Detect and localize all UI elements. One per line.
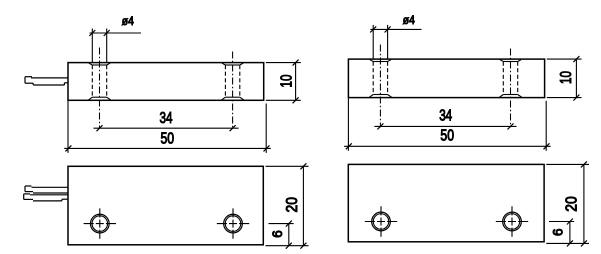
dimension 34: tick marks bbox=[97, 125, 103, 131]
hole view AH2: countersink chamfer top bbox=[222, 63, 225, 65]
mounting hole view CM2: centre mark horizontal bbox=[217, 223, 249, 225]
hole view AH2: countersink chamfer bottom bbox=[222, 97, 226, 100]
hole view BH1: countersink chamfer top bbox=[370, 60, 373, 62]
dimension 6 (hole offset): extension stub from hole centre bbox=[269, 223, 294, 225]
dimension 10 (height): extension lines bbox=[547, 58, 582, 60]
dimension 10 (height): extension lines bbox=[266, 62, 301, 64]
svg-text:20: 20 bbox=[564, 196, 581, 212]
dimension 10: tick marks bbox=[293, 60, 299, 66]
dimension o4 (hole diameter): extension lines bbox=[372, 25, 374, 59]
dimension o4: dimension line bbox=[90, 32, 142, 34]
mounting hole view DM1: outer circle bbox=[372, 212, 391, 231]
mounting hole view CM2: inner circle bbox=[225, 216, 241, 232]
mounting hole view DM2: inner circle bbox=[504, 214, 520, 230]
hole view BH2: countersink chamfer top bbox=[500, 60, 503, 62]
mounting hole view CM2: centre mark vertical bbox=[232, 208, 234, 238]
svg-text:10: 10 bbox=[558, 71, 575, 84]
dimension 20: dimension line bbox=[302, 166, 304, 245]
mounting hole view CM1: outer circle bbox=[90, 214, 109, 233]
dimension 6: tick marks bbox=[567, 219, 573, 225]
dimension 20 (width): extension lines bbox=[266, 165, 309, 167]
dimension 20: tick marks bbox=[300, 163, 306, 169]
view C: sensor body outline (top view) bbox=[68, 166, 263, 245]
svg-text:ø4: ø4 bbox=[403, 15, 416, 27]
dimension 10: tick marks bbox=[573, 56, 579, 62]
svg-text:10: 10 bbox=[278, 74, 295, 87]
mounting hole view CM1: centre mark vertical bbox=[99, 208, 101, 238]
cable pair exiting left side (top view) bbox=[25, 185, 32, 187]
dimension 34 (hole spacing): dimension line bbox=[94, 127, 239, 129]
centre line of hole view AH2 bbox=[232, 52, 234, 129]
view D: sensor body outline (top view) bbox=[348, 164, 544, 241]
svg-text:6: 6 bbox=[551, 228, 566, 236]
mounting hole view DM2: centre mark vertical bbox=[511, 206, 513, 236]
hole view AH1: countersink chamfer top bbox=[89, 63, 92, 65]
mounting hole view CM1: centre mark horizontal bbox=[84, 223, 116, 225]
svg-text:6: 6 bbox=[270, 230, 285, 238]
centre line of hole view BH2 bbox=[510, 49, 512, 128]
dimension 6 (hole offset): extension stub from hole centre bbox=[549, 221, 574, 223]
dimension 50: dimension line bbox=[344, 145, 550, 147]
hole view BH2: countersink chamfer bottom bbox=[500, 95, 504, 98]
dimension 50: tick marks bbox=[65, 145, 71, 151]
svg-text:34: 34 bbox=[160, 110, 173, 127]
mounting hole view DM1: inner circle bbox=[373, 214, 389, 230]
svg-text:50: 50 bbox=[160, 130, 174, 147]
svg-text:20: 20 bbox=[284, 197, 301, 213]
mounting hole view CM1: inner circle bbox=[92, 216, 108, 232]
svg-text:50: 50 bbox=[440, 127, 454, 144]
hole view BH2: hidden outline (dashed walls) bbox=[502, 62, 504, 95]
dimension o4: tick marks bbox=[370, 26, 376, 32]
dimension 34 (hole spacing): dimension line bbox=[374, 125, 516, 127]
hole view BH1: hidden outline (dashed walls) bbox=[372, 62, 374, 95]
wire / cable exiting left side bbox=[31, 77, 68, 79]
mounting hole view DM1: centre mark vertical bbox=[380, 206, 382, 236]
dimension 50 (overall length): extension lines bbox=[347, 98, 349, 151]
centre line of hole view BH1 bbox=[379, 45, 381, 128]
dimension 34: tick marks bbox=[377, 123, 383, 129]
svg-text:34: 34 bbox=[439, 107, 452, 124]
dimension 20 (width): extension lines bbox=[546, 163, 589, 165]
dimension 10: dimension line bbox=[575, 59, 577, 98]
dimension 50: dimension line bbox=[64, 147, 271, 149]
dimension 20: tick marks bbox=[581, 161, 587, 167]
mounting hole view DM2: centre mark horizontal bbox=[496, 221, 528, 223]
view B: sensor body outline (side view) bbox=[348, 59, 544, 98]
dimension o4 (hole diameter): extension lines bbox=[91, 29, 93, 63]
svg-text:ø4: ø4 bbox=[122, 16, 135, 28]
dimension 6: dimension line bbox=[569, 222, 571, 244]
hole view AH2: hidden outline (dashed walls) bbox=[224, 65, 226, 97]
mounting hole view DM1: centre mark horizontal bbox=[365, 221, 397, 223]
hole view AH1: countersink chamfer bottom bbox=[89, 97, 93, 100]
view A: sensor body outline (side view) bbox=[68, 63, 264, 101]
hole view BH1: countersink chamfer bottom bbox=[369, 95, 373, 98]
dimension 10: dimension line bbox=[295, 63, 297, 101]
dimension o4: tick marks bbox=[89, 30, 95, 36]
dimension 50 (overall length): extension lines bbox=[67, 101, 69, 153]
dimension 50: tick marks bbox=[346, 143, 352, 149]
dimension 20: dimension line bbox=[583, 164, 585, 243]
dimension 6: tick marks bbox=[286, 221, 292, 227]
mounting hole view DM2: outer circle bbox=[503, 212, 522, 231]
dimension 6: dimension line bbox=[288, 224, 290, 246]
centre line of hole view AH1 bbox=[99, 48, 101, 129]
mounting hole view CM2: outer circle bbox=[224, 214, 243, 233]
dimension o4: dimension line bbox=[370, 28, 421, 30]
hole view AH1: hidden outline (dashed walls) bbox=[91, 65, 93, 97]
